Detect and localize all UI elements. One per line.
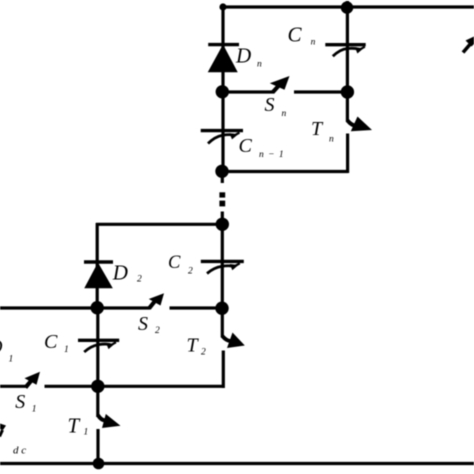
svg-text:C: C	[288, 23, 303, 47]
capacitor Cn-1	[201, 131, 243, 144]
svg-text:S: S	[138, 313, 148, 335]
wire Sn left segment	[222, 90, 274, 93]
wire Sn right segment	[294, 90, 348, 93]
node corner top-left stage n	[219, 3, 226, 10]
switch Tn	[348, 117, 373, 132]
wire S2 feed from left edge	[0, 306, 97, 309]
label C2	[168, 253, 193, 276]
label C1	[44, 331, 69, 355]
node junction T1 top	[91, 380, 104, 393]
label Dn	[235, 44, 262, 70]
svg-text:n: n	[282, 109, 287, 119]
label Cn	[288, 23, 316, 48]
svg-text:d c: d c	[13, 445, 26, 457]
svg-text:D: D	[235, 44, 251, 68]
svg-text:T: T	[68, 413, 81, 437]
label T2	[187, 335, 207, 358]
node junction Sn left	[216, 85, 229, 98]
wire S2 left segment	[97, 306, 150, 309]
wire left vertical stage n	[221, 6, 224, 171]
capacitor C2	[201, 261, 244, 273]
node junction top right stage n	[341, 1, 353, 13]
node junction S2 right	[215, 302, 228, 315]
svg-text:C: C	[44, 331, 58, 353]
label Vdc V-tip fragment at left edge	[0, 424, 6, 437]
wire bottom rail stage n	[222, 170, 348, 173]
svg-text:1: 1	[84, 428, 89, 438]
wire right vertical stage n lower	[346, 134, 349, 174]
label D2	[112, 261, 142, 285]
label D1 cut off at left edge	[0, 336, 13, 365]
switch T2	[222, 333, 245, 349]
wire bottom rail stage 2	[45, 385, 225, 388]
svg-text:2: 2	[201, 348, 206, 358]
diode Dn	[208, 45, 239, 72]
svg-text:2: 2	[188, 266, 193, 276]
node junction S2 left	[91, 301, 104, 314]
svg-text:T: T	[311, 118, 324, 140]
load arrow cut off at right edge	[463, 37, 474, 53]
wire right vertical stage 2 lower	[222, 351, 225, 389]
node junction bottom rail	[93, 458, 105, 470]
wire right vertical stage n upper	[346, 1, 349, 122]
svg-text:D: D	[112, 261, 128, 285]
svg-text:T: T	[187, 335, 200, 357]
wire left vertical stage 2 upper	[96, 223, 99, 308]
label Tn	[311, 118, 334, 145]
svg-text:S: S	[265, 94, 275, 116]
switch S2 blade arrow	[149, 293, 164, 308]
svg-text:C: C	[239, 135, 253, 157]
node junction bottom-left stage n	[215, 165, 228, 178]
wire left vertical stage 2 lower	[96, 308, 99, 418]
label S2	[138, 313, 160, 336]
node junction top-right stage 2	[216, 218, 229, 231]
switch S1 blade arrow	[25, 372, 41, 388]
wire S2 right segment	[170, 306, 223, 309]
wire bottom rail	[0, 462, 474, 465]
svg-text:D: D	[0, 336, 3, 358]
label Sn	[265, 94, 287, 119]
svg-text:1: 1	[9, 355, 14, 365]
diode D2	[84, 262, 113, 288]
label Vdc subscript	[13, 445, 26, 457]
wire right vertical stage 2 upper	[221, 224, 224, 338]
capacitor C1	[78, 340, 119, 352]
svg-text:C: C	[168, 253, 181, 273]
svg-text:n − 1: n − 1	[259, 150, 285, 160]
wire S1 feed from left edge	[0, 385, 27, 388]
svg-text:1: 1	[64, 345, 69, 355]
node junction Sn right	[341, 85, 354, 98]
switch Sn blade arrow	[270, 76, 290, 93]
switch T1	[98, 414, 121, 428]
svg-text:n: n	[311, 37, 316, 47]
svg-text:S: S	[15, 391, 25, 413]
label S1	[15, 391, 36, 414]
svg-text:1: 1	[32, 404, 37, 414]
wire top rail stage 2	[96, 223, 223, 226]
svg-text:n: n	[329, 135, 334, 145]
wire top rail stage n	[222, 5, 474, 8]
svg-text:n: n	[257, 60, 262, 70]
svg-text:2: 2	[155, 326, 160, 336]
wire T1 lower segment	[96, 429, 99, 464]
svg-text:2: 2	[137, 275, 142, 285]
capacitor Cn	[325, 45, 365, 57]
label T1	[68, 413, 89, 437]
label Cn-1	[239, 135, 285, 160]
wire dashed link between stages	[221, 171, 224, 225]
